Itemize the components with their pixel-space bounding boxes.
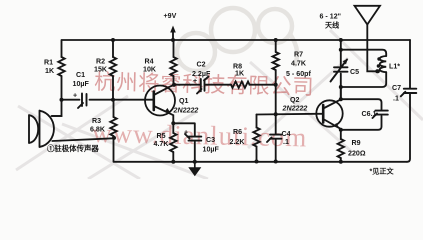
resistor R2: [110, 57, 116, 76]
resistor R5: [170, 133, 176, 152]
svg-text:R9: R9: [352, 139, 361, 147]
resistor R3: [110, 117, 116, 136]
svg-text:2N2222: 2N2222: [282, 105, 308, 113]
wire tank bottom: [341, 72, 386, 87]
antenna: [355, 6, 381, 72]
svg-text:C5: C5: [350, 68, 359, 76]
svg-text:C4: C4: [282, 130, 291, 138]
svg-text:4.7K: 4.7K: [291, 60, 307, 68]
svg-text:L1*: L1*: [389, 63, 400, 71]
wire C6 box: [341, 99, 382, 130]
capacitor C2: [197, 77, 209, 94]
wire right edge: [407, 40, 410, 162]
wire top +9V rail: [62, 39, 410, 41]
svg-text:1K: 1K: [45, 67, 55, 75]
wire C1 row: [62, 99, 154, 101]
svg-text:①驻极体传声器: ①驻极体传声器: [47, 144, 99, 153]
wire Q2 base row: [257, 113, 324, 116]
wire bottom ground rail: [114, 161, 407, 163]
wire C5 branch: [340, 40, 342, 99]
wire R3 branch: [113, 100, 115, 162]
svg-text:R2: R2: [96, 58, 105, 66]
svg-text:220Ω: 220Ω: [348, 150, 366, 158]
wire R4 branch: [173, 40, 175, 85]
transistor Q2: [316, 99, 342, 129]
capacitor C5 variable: [331, 60, 348, 82]
resistor R9: [338, 139, 344, 158]
resistor R6: [253, 128, 259, 147]
svg-text:2N2222: 2N2222: [173, 107, 199, 115]
inductor L1: [380, 56, 386, 72]
wire signal row: [174, 84, 276, 86]
resistor R8: [231, 82, 250, 88]
svg-text:1K: 1K: [235, 70, 245, 78]
svg-text:Q1: Q1: [179, 97, 189, 105]
wire C3 branch: [173, 123, 195, 162]
svg-text:10K: 10K: [143, 66, 157, 74]
capacitor C3: [185, 134, 201, 141]
svg-text:4.7K: 4.7K: [154, 140, 170, 148]
svg-text:天线: 天线: [325, 21, 339, 30]
wire R6 branch: [256, 115, 258, 162]
svg-text:Q2: Q2: [290, 96, 300, 104]
wire R1 branch: [52, 40, 62, 116]
svg-text:R4: R4: [145, 58, 154, 66]
power +9V: [172, 32, 174, 41]
svg-text:10µF: 10µF: [203, 146, 220, 154]
wire R2 branch: [112, 40, 114, 100]
svg-text:*见正文: *见正文: [370, 167, 395, 176]
svg-text:+: +: [184, 129, 188, 137]
transistor Q1: [145, 85, 175, 124]
svg-text:R5: R5: [157, 132, 166, 140]
svg-text:C3: C3: [206, 136, 215, 144]
svg-text:2.2K: 2.2K: [230, 138, 246, 146]
svg-text:+: +: [73, 92, 77, 100]
capacitor C1: [78, 94, 87, 109]
svg-text:5 - 60pf: 5 - 60pf: [286, 70, 311, 78]
svg-text:R1: R1: [44, 59, 53, 67]
svg-text:.1: .1: [283, 138, 289, 146]
svg-text:R6: R6: [233, 128, 242, 136]
capacitor C6: [373, 111, 388, 118]
svg-text:C2: C2: [197, 61, 206, 69]
resistor R7: [273, 52, 279, 70]
microphone MIC: [29, 111, 114, 148]
wire R7-C4 branch: [275, 40, 277, 162]
wire R5 branch: [172, 123, 174, 162]
svg-text:6 - 12": 6 - 12": [320, 13, 342, 21]
svg-text:+: +: [193, 77, 197, 85]
resistor R4: [170, 57, 176, 76]
svg-text:.1: .1: [393, 95, 399, 103]
svg-text:15K: 15K: [94, 66, 108, 74]
svg-text:6.8K: 6.8K: [90, 126, 106, 134]
capacitor C4: [267, 135, 282, 142]
wire tank top: [341, 50, 386, 56]
svg-text:R7: R7: [294, 51, 303, 59]
capacitor C7: [401, 89, 417, 97]
junction dots: [111, 38, 115, 42]
svg-text:R3: R3: [92, 117, 101, 125]
svg-text:C7: C7: [392, 84, 401, 92]
svg-text:+9V: +9V: [164, 12, 177, 20]
ground: [194, 162, 196, 168]
decor: [177, 8, 297, 71]
svg-text:10µF: 10µF: [73, 80, 90, 88]
wire R9 branch: [340, 130, 342, 162]
svg-text:C1: C1: [76, 71, 85, 79]
wire Q2 collector: [340, 87, 342, 99]
resistor R1: [58, 57, 64, 76]
svg-text:C6.1: C6.1: [362, 110, 377, 118]
